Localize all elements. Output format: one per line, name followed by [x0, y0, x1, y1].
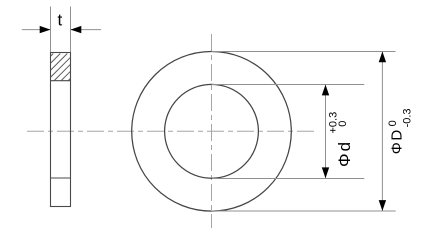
svg-text:Φd: Φd: [335, 140, 354, 167]
svg-text:-0.3: -0.3: [401, 108, 413, 127]
svg-text:ΦD: ΦD: [389, 128, 406, 154]
svg-text:0: 0: [337, 121, 349, 127]
svg-text:t: t: [58, 11, 63, 30]
svg-text:0: 0: [387, 120, 399, 126]
